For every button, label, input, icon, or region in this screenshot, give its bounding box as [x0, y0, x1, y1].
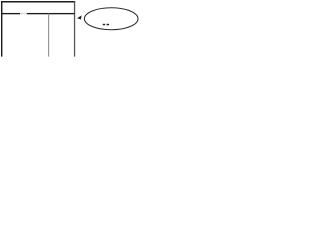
header separator light gap [20, 13, 27, 15]
table left border [1, 1, 2, 57]
column divider [48, 14, 49, 57]
header separator line [1, 13, 75, 14]
callout text dash 1 [103, 24, 106, 26]
callout text dash 2 [107, 24, 109, 26]
table right border [74, 1, 75, 57]
background [0, 0, 139, 59]
arrowhead [77, 15, 81, 19]
table top border [1, 1, 75, 3]
callout ellipse [84, 8, 138, 30]
